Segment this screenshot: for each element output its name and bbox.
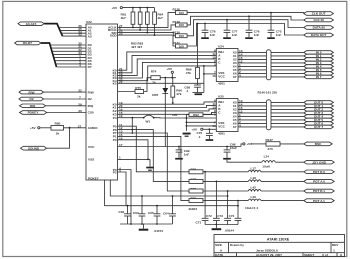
node D0-D7 bus flag	[15, 41, 41, 45]
svg-text:1nF: 1nF	[276, 33, 282, 37]
resistor R64	[153, 8, 164, 35]
wire D0..D7 taps	[50, 45, 86, 67]
svg-text:1: 1	[119, 155, 121, 159]
svg-text:IRQ: IRQ	[30, 104, 36, 108]
svg-text:+5V: +5V	[167, 67, 174, 71]
svg-text:R92: R92	[193, 113, 199, 117]
wire joy gnd feed	[227, 160, 262, 163]
svg-text:U22: U22	[86, 20, 92, 24]
title block	[214, 235, 345, 258]
wire pot dropper3	[227, 191, 229, 218]
svg-text:47k: 47k	[186, 71, 191, 75]
svg-text:POT A 1: POT A 1	[313, 199, 325, 203]
node JOY GND flag	[304, 160, 334, 164]
wire BCLK line	[118, 25, 176, 30]
svg-text:DATA OUT: DATA OUT	[311, 33, 327, 37]
svg-text:POT A 0: POT A 0	[313, 180, 325, 184]
svg-text:100: 100	[172, 113, 177, 117]
svg-text:AUGUST 29, 2007: AUGUST 29, 2007	[256, 253, 282, 257]
resistor R137	[251, 138, 304, 151]
capacitor C73	[217, 214, 231, 225]
svg-text:POT B 0: POT B 0	[313, 170, 325, 174]
svg-text:270: 270	[268, 147, 273, 151]
svg-text:7: 7	[79, 96, 81, 100]
wire P3 drop	[118, 170, 132, 225]
svg-text:R/W: R/W	[88, 90, 94, 94]
resistor R89	[186, 23, 200, 85]
svg-text:37: 37	[78, 124, 82, 128]
svg-text:P2: P2	[113, 171, 117, 175]
svg-text:VSS: VSS	[88, 158, 94, 162]
svg-text:.1: .1	[198, 135, 201, 139]
wire pot dropper2	[215, 181, 217, 218]
wire Pmux1 to U25	[118, 105, 217, 107]
svg-text:4051: 4051	[218, 132, 225, 136]
svg-text:C64: C64	[163, 211, 169, 215]
svg-text:R137: R137	[266, 138, 274, 142]
svg-text:C65: C65	[148, 211, 154, 215]
svg-text:O2: O2	[29, 97, 33, 101]
capacitor C78	[201, 23, 216, 39]
svg-text:POKEY: POKEY	[88, 176, 100, 180]
resistor R130	[173, 31, 188, 38]
resistor R92 100	[172, 113, 216, 117]
wire W1 tie vertical	[131, 118, 133, 133]
svg-text:C73: C73	[217, 214, 223, 218]
svg-text:CLK OUT: CLK OUT	[312, 12, 326, 16]
junction BCLK/R62	[139, 29, 141, 31]
resistor R131	[173, 41, 188, 48]
svg-text:U24: U24	[218, 45, 224, 49]
svg-text:K5: K5	[113, 82, 117, 86]
svg-text:D7: D7	[88, 65, 92, 69]
svg-text:2k: 2k	[152, 80, 156, 84]
wire comm line4	[187, 24, 304, 47]
capacitor C65	[148, 205, 160, 225]
wire SID line	[118, 33, 176, 36]
resistor R76	[189, 168, 248, 174]
wire K4 to U24	[118, 66, 217, 81]
wire Pmux3 to U25	[118, 112, 217, 114]
wire ACLK line	[118, 13, 176, 28]
svg-text:1nF: 1nF	[210, 33, 216, 37]
resistor R62	[138, 8, 142, 30]
svg-text:Drawn by: Drawn by	[230, 243, 244, 247]
pin labels D0-D7	[88, 43, 92, 69]
svg-text:DATA IN: DATA IN	[313, 26, 326, 30]
node DATA OUT flag	[304, 33, 334, 37]
capacitor C68	[184, 85, 201, 93]
wire CS0	[47, 112, 86, 114]
capacitor C63	[133, 195, 145, 225]
capacitor C64	[163, 195, 176, 224]
ground VSS	[146, 159, 154, 171]
svg-text:C74: C74	[229, 214, 235, 218]
wire K1 to U24	[118, 55, 217, 72]
svg-text:10uH X 4: 10uH X 4	[245, 206, 258, 210]
resistor R129	[173, 20, 188, 27]
wire A3 tap	[62, 35, 86, 37]
jumper W1	[113, 114, 155, 124]
svg-text:10uH: 10uH	[262, 165, 270, 169]
svg-text:CR5: CR5	[152, 93, 158, 97]
inductor L17	[248, 166, 304, 172]
resistor R128	[173, 8, 188, 15]
U22 keyboard pin labels	[113, 68, 117, 85]
wire O2	[44, 98, 87, 100]
wire A bus trunk	[44, 24, 62, 36]
svg-text:A3: A3	[88, 34, 92, 38]
U22 pot mux pin numbers	[119, 101, 123, 115]
resistor R77	[189, 177, 248, 183]
node IRQ flag	[20, 104, 46, 108]
svg-text:AUDIO: AUDIO	[88, 126, 99, 130]
svg-text:POKEY: POKEY	[28, 111, 40, 115]
wire P2 drop	[118, 172, 127, 206]
wire pot dropper1	[204, 172, 206, 219]
svg-text:L18: L18	[251, 176, 257, 180]
svg-text:2k8#4: 2k8#4	[189, 207, 198, 211]
svg-text:O2: O2	[88, 97, 92, 101]
inductor L18	[248, 176, 304, 182]
svg-text:R/W: R/W	[28, 90, 34, 94]
svg-text:29: 29	[78, 102, 82, 106]
inductor L24	[262, 154, 304, 168]
diode CR5	[152, 78, 168, 147]
svg-text:6 of: 6 of	[322, 253, 328, 257]
svg-text:VCC: VCC	[218, 125, 225, 129]
node POT B 0 flag	[304, 170, 334, 174]
svg-text:L17: L17	[251, 166, 257, 170]
junction SOD/R64	[154, 34, 156, 36]
IC U22 POKEY	[86, 20, 118, 180]
U24 left pin numbers	[212, 49, 216, 79]
svg-text:CS0: CS0	[88, 111, 94, 115]
ground select vertical	[183, 133, 191, 137]
label R82 R83 values	[131, 42, 143, 50]
svg-text:10uF: 10uF	[230, 146, 237, 150]
node DATA IN flag	[304, 26, 334, 30]
svg-text:30: 30	[78, 109, 82, 113]
svg-text:L24: L24	[264, 154, 270, 158]
wire Pmux0 to U25	[118, 102, 217, 104]
svg-text:A0-A15: A0-A15	[26, 22, 37, 26]
svg-text:IRQ: IRQ	[88, 104, 94, 108]
pin numbers A0-A3	[78, 24, 82, 37]
wire K0 to U24	[118, 52, 217, 70]
U25 right pin numbers	[239, 99, 243, 128]
resistor R75	[118, 86, 144, 99]
svg-text:VCC: VCC	[88, 145, 95, 149]
node O2 flag	[19, 97, 44, 101]
svg-text:R74: R74	[151, 70, 157, 74]
inductor L46	[245, 195, 304, 210]
wire IRQ	[46, 105, 86, 107]
pin labels A0-A3	[88, 26, 92, 39]
node BSC flag	[304, 142, 332, 146]
U22 P-output pin numbers	[119, 123, 123, 141]
svg-text:D0-D7: D0-D7	[23, 41, 32, 45]
node OUT flags group	[304, 101, 334, 130]
svg-text:OUT 7: OUT 7	[314, 125, 323, 129]
svg-text:2k: 2k	[56, 132, 60, 136]
svg-text:100: 100	[179, 23, 184, 27]
svg-text:.001#4: .001#4	[225, 229, 235, 233]
wire SOUND to audio node	[47, 128, 70, 148]
node POT A 0 flag	[304, 180, 334, 184]
wire P7 to pot row3	[118, 133, 190, 191]
svg-text:JOY GND: JOY GND	[312, 160, 327, 164]
svg-text:1: 1	[333, 249, 335, 253]
ground cap group1	[139, 224, 149, 231]
svg-text:9: 9	[340, 253, 342, 257]
power +5V at R80	[30, 126, 40, 130]
wire comm line3	[187, 20, 304, 36]
svg-text:.047#4: .047#4	[154, 229, 164, 233]
junction SID/R63	[146, 32, 148, 34]
svg-text:+5V: +5V	[112, 6, 119, 10]
wire P0	[118, 140, 149, 160]
wire comm line1 to CLK OUT	[187, 12, 304, 15]
svg-text:POT B 1: POT B 1	[313, 189, 325, 193]
svg-text:4k7: 4k7	[158, 16, 163, 20]
svg-text:16: 16	[212, 74, 216, 78]
capacitor C99	[175, 146, 190, 160]
capacitor C76	[245, 15, 260, 39]
wire A0 tap	[59, 27, 86, 29]
svg-text:C63: C63	[133, 211, 139, 215]
svg-text:SOUND: SOUND	[28, 146, 40, 150]
svg-text:P4: P4	[113, 116, 117, 120]
capacitor C74	[229, 214, 242, 225]
junction audio node	[69, 127, 71, 129]
node POKEY select flag	[20, 111, 47, 115]
svg-text:L45: L45	[251, 186, 257, 190]
capacitor C72	[206, 214, 220, 225]
inductor L45	[248, 186, 304, 192]
wire comm line2	[187, 16, 304, 25]
svg-text:ATARI 130XE: ATARI 130XE	[267, 238, 290, 242]
U22 VSS pin 1	[88, 155, 150, 161]
wire U24 VSS stub	[204, 73, 216, 75]
wire gnd rail B	[105, 180, 238, 206]
node CLK OUT flag	[304, 12, 334, 16]
wire SOD line	[118, 35, 176, 46]
svg-text:4k7: 4k7	[121, 16, 126, 20]
node POT B 1 flag	[304, 189, 334, 193]
svg-text:SIZE: SIZE	[215, 243, 222, 247]
svg-text:C71: C71	[196, 221, 202, 225]
svg-text:BSC: BSC	[315, 142, 322, 146]
junction ACLK/R61	[132, 27, 134, 29]
U22 VCC pin 17	[88, 143, 241, 149]
svg-text:4k7 4k7: 4k7 4k7	[131, 45, 142, 49]
resistor R79	[189, 197, 249, 211]
wire K5	[118, 82, 204, 84]
svg-text:X7: X7	[233, 125, 237, 129]
junction pull-up tops	[132, 7, 134, 9]
resistor R74	[151, 70, 161, 85]
wire A2 tap	[61, 32, 86, 34]
wire select drops	[186, 115, 217, 131]
resistor pack R154-161	[266, 100, 271, 130]
resistor R63	[146, 8, 150, 33]
svg-text:SOD: SOD	[110, 33, 117, 37]
wire P5 to pot row1	[118, 126, 190, 172]
capacitor C70	[197, 128, 214, 140]
node CLK IN flag	[304, 18, 334, 22]
svg-text:SHEET: SHEET	[304, 253, 314, 257]
svg-text:1nF: 1nF	[232, 33, 238, 37]
resistor R80	[40, 122, 64, 136]
U24 right pin numbers	[239, 49, 243, 78]
mux U25 4051	[216, 95, 238, 136]
resistor R61	[121, 8, 135, 28]
svg-text:100: 100	[179, 44, 184, 48]
svg-text:1nF: 1nF	[184, 153, 190, 157]
wire D bus trunk	[41, 43, 57, 67]
wire K3 to U24	[118, 62, 217, 78]
node A0-A15 bus flag	[18, 22, 44, 26]
wire Pmux2 to U25	[118, 109, 217, 111]
U22 P-output pin labels	[113, 124, 117, 142]
power +5V mid	[167, 67, 174, 78]
resistor R96	[171, 78, 182, 104]
U22 keyboard pin numbers	[119, 67, 123, 84]
wire P1 to pot row4	[118, 136, 190, 200]
svg-text:DATE: DATE	[215, 253, 223, 257]
U25 left pin numbers	[212, 99, 216, 129]
resistor R78	[189, 187, 248, 193]
pin labels ACLK BCLK SID SOD	[108, 26, 117, 38]
svg-text:U25: U25	[218, 95, 224, 99]
wires U24 outputs to IN flags	[238, 52, 304, 77]
svg-text:X7: X7	[233, 75, 237, 79]
svg-text:100: 100	[179, 11, 184, 15]
wire A1 tap	[60, 29, 86, 31]
svg-text:4051: 4051	[218, 82, 225, 86]
svg-text:R80: R80	[55, 122, 61, 126]
svg-text:+5V: +5V	[30, 126, 37, 130]
wire K2 to U24	[118, 59, 217, 76]
wire R74 left to R75	[144, 78, 151, 92]
wire gnd rail A	[110, 180, 227, 196]
wires U25 outputs to OUT flags	[238, 102, 304, 127]
node SOUND flag	[21, 146, 47, 150]
svg-text:C72: C72	[206, 214, 212, 218]
power +5V pull-up rail	[112, 6, 155, 10]
svg-text:REV: REV	[332, 243, 339, 247]
svg-text:47k: 47k	[176, 92, 181, 96]
svg-text:VCC: VCC	[218, 75, 225, 79]
svg-text:1nF: 1nF	[254, 33, 260, 37]
wire R80 to AUDIO pin 37	[64, 127, 87, 129]
wire gnd drop U24	[203, 66, 205, 93]
wire pot dropper4	[237, 201, 239, 219]
svg-text:L46: L46	[251, 195, 257, 199]
power +5V at U25	[192, 128, 217, 132]
wire W1 return	[154, 117, 217, 119]
capacitor C75	[267, 12, 282, 39]
wire R74 node	[160, 77, 176, 79]
capacitor C71	[196, 218, 209, 224]
node POT A 1 flag	[304, 199, 334, 203]
svg-text:2k: 2k	[137, 94, 141, 98]
svg-text:33: 33	[78, 33, 82, 37]
U22 bottom pins P3 P2	[113, 168, 117, 175]
power +5V right	[241, 142, 253, 146]
mux U24 4051	[216, 45, 238, 86]
svg-text:IN 7: IN 7	[316, 75, 322, 79]
pin numbers D0-D7	[78, 42, 82, 68]
ground C68	[193, 93, 204, 96]
node R/W flag	[19, 90, 44, 94]
svg-text:100: 100	[179, 34, 184, 38]
svg-text:4: 4	[79, 64, 81, 68]
svg-text:W1: W1	[146, 120, 151, 124]
svg-text:.1: .1	[186, 89, 189, 93]
svg-text:C66: C66	[119, 210, 125, 214]
svg-text:32: 32	[78, 89, 82, 93]
node IN flags group	[304, 51, 334, 80]
capacitor C66	[119, 205, 131, 224]
capacitor C98	[223, 142, 237, 159]
resistor pack R146-153	[266, 50, 271, 80]
svg-text:P0: P0	[113, 138, 117, 142]
wire cap group1 bottom	[120, 223, 173, 225]
ground cap group2	[212, 225, 222, 231]
capacitor C77	[223, 19, 238, 39]
svg-text:R146-161 220: R146-161 220	[258, 91, 278, 95]
svg-text:CLK IN: CLK IN	[313, 18, 324, 22]
wire P6 to pot row2	[118, 130, 190, 182]
pin numbers 27 6 24 25	[119, 24, 123, 36]
wire R/W	[44, 91, 87, 93]
wire cap group2 bottom	[205, 224, 238, 226]
